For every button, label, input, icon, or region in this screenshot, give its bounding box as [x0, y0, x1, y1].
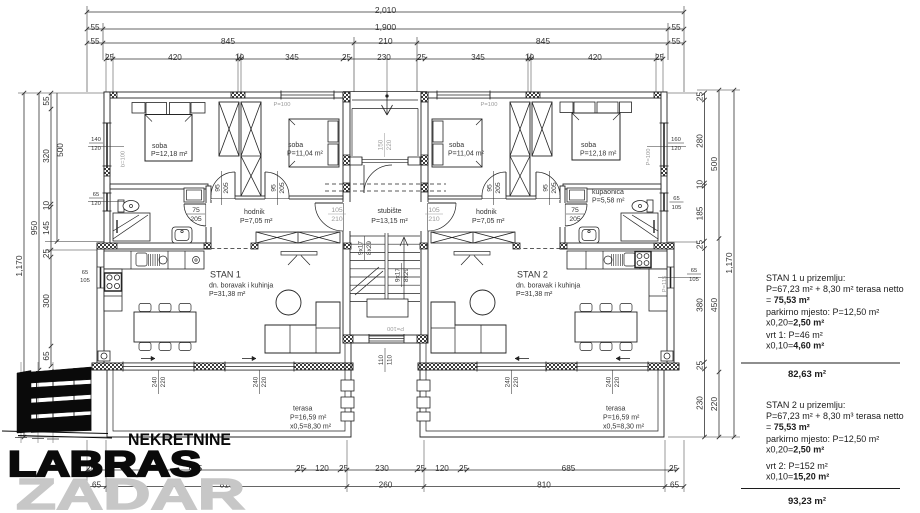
svg-text:105: 105: [672, 205, 682, 211]
svg-text:STAN 2 u prizemlju:: STAN 2 u prizemlju:: [766, 400, 845, 410]
svg-text:hodnik: hodnik: [476, 209, 497, 216]
roof line over entrance recess: [343, 91, 427, 93]
svg-text:810: 810: [537, 481, 551, 490]
svg-text:110: 110: [387, 354, 394, 365]
svg-text:65: 65: [82, 270, 88, 276]
top wall window P=100: [281, 92, 334, 98]
svg-text:450: 450: [709, 298, 719, 312]
logo survey crosses: [15, 437, 27, 439]
svg-text:P=100: P=100: [274, 102, 291, 108]
sofa: [265, 302, 340, 353]
window size 240/220 labels: [158, 370, 160, 394]
svg-text:soba: soba: [152, 143, 167, 150]
living room left wall: [667, 243, 674, 370]
svg-text:x0,10=15,20 m²: x0,10=15,20 m²: [766, 472, 829, 482]
kitchen counter: [567, 251, 667, 269]
svg-text:120: 120: [435, 464, 449, 473]
svg-text:1,900: 1,900: [375, 22, 397, 32]
svg-text:P=67,23 m² + 8,30 m² terasa ne: P=67,23 m² + 8,30 m² terasa netto: [766, 284, 904, 294]
bottom dimension row 25-685-25-120-25-230-25-120-25-685-25: [87, 469, 677, 471]
svg-text:vrt 1: P=46 m²: vrt 1: P=46 m²: [766, 330, 823, 340]
svg-text:P=31,38 m²: P=31,38 m²: [516, 291, 553, 298]
round table: [276, 290, 301, 315]
door arc bedroom 1 (95/205): [535, 172, 537, 196]
svg-text:55: 55: [90, 37, 100, 46]
sliding window arrows: [141, 358, 155, 360]
svg-text:120: 120: [91, 146, 101, 152]
stair break line: [351, 267, 379, 291]
svg-text:P=16,59 m²: P=16,59 m²: [290, 415, 327, 422]
svg-text:240: 240: [605, 376, 612, 387]
svg-text:105: 105: [80, 278, 90, 284]
hob symbol: [193, 257, 200, 264]
svg-text:230: 230: [377, 53, 391, 62]
svg-text:140: 140: [91, 137, 101, 143]
svg-text:P=31,38 m²: P=31,38 m²: [209, 291, 246, 298]
svg-text:500: 500: [709, 157, 719, 171]
outer left wall: [661, 92, 667, 249]
top wall hatch blocks: [654, 92, 667, 98]
sofa: [431, 302, 506, 353]
dish rack: [622, 254, 624, 266]
right dimension chain 25-280-10-185-25-380-25-230: [704, 93, 706, 437]
svg-text:685: 685: [562, 464, 576, 473]
svg-text:25: 25: [296, 464, 306, 473]
svg-text:150: 150: [377, 139, 384, 150]
svg-text:55: 55: [671, 23, 681, 32]
bathroom top wall: [563, 184, 661, 189]
svg-text:9x17: 9x17: [394, 268, 401, 282]
dimension row 2010: [87, 11, 684, 13]
left wall bathroom window 65/120: [104, 193, 110, 211]
svg-text:dn. boravak i kuhinja: dn. boravak i kuhinja: [516, 283, 580, 290]
entrance arrow: [386, 59, 388, 92]
beam over hodnik opening: [431, 232, 515, 243]
svg-text:25: 25: [696, 240, 705, 250]
svg-text:105: 105: [331, 207, 343, 214]
bathroom right wall: [560, 186, 565, 249]
svg-text:25: 25: [669, 464, 679, 473]
left wall window 140/120: [104, 123, 110, 166]
stairwell side wall: [421, 165, 428, 343]
dimension row 845-210-845: [87, 42, 684, 44]
svg-text:P=7,05 m²: P=7,05 m²: [240, 218, 273, 225]
stair landing: [367, 299, 408, 317]
svg-text:dn. boravak i kuhinja: dn. boravak i kuhinja: [209, 283, 273, 290]
window 110/110 labels: [384, 348, 386, 372]
stove on counter: [635, 252, 651, 268]
door size 95/205 labels: [221, 171, 223, 205]
logo building band 3: [31, 399, 91, 415]
left dimension chain 55-320-10-145-25-300-65: [50, 93, 52, 366]
svg-text:75: 75: [571, 207, 579, 214]
svg-text:75: 75: [192, 207, 200, 214]
dish rack: [148, 254, 150, 266]
svg-text:soba: soba: [449, 142, 464, 149]
left dimension line 500: [56, 93, 58, 242]
svg-text:P=115: P=115: [662, 276, 668, 293]
porch interior outline: [352, 108, 418, 110]
door arc bathroom (75/205): [184, 203, 206, 205]
bedroom bottom wall: [211, 196, 343, 199]
logo building band 1: [31, 367, 91, 383]
porch side wall: [343, 92, 350, 165]
staircase: [350, 235, 385, 237]
svg-text:120: 120: [315, 464, 329, 473]
svg-text:845: 845: [221, 36, 235, 46]
washing machine: [567, 188, 587, 202]
bottom wall hatch blocks: [648, 363, 679, 370]
summary rule 1: [741, 362, 900, 364]
svg-text:845: 845: [536, 36, 550, 46]
svg-text:terasa: terasa: [293, 406, 313, 413]
svg-text:kupaonica: kupaonica: [592, 189, 624, 196]
svg-text:10: 10: [235, 53, 245, 62]
bottom window 2: [477, 363, 546, 370]
kitchen dashed line: [520, 248, 567, 250]
svg-text:10: 10: [525, 53, 535, 62]
svg-text:320: 320: [42, 149, 51, 163]
outer top wall: [428, 92, 667, 98]
svg-text:145: 145: [42, 221, 51, 235]
door arc bedroom 1 (95/205): [234, 172, 236, 196]
svg-text:220: 220: [513, 376, 520, 387]
svg-text:260: 260: [379, 481, 393, 490]
logo construction lines: [20, 362, 22, 443]
kitchen counter vertical with stove: [104, 269, 122, 311]
entrance door swing: [363, 165, 365, 193]
svg-text:380: 380: [696, 298, 705, 312]
logo building corner line: [90, 367, 92, 431]
svg-text:120: 120: [671, 146, 681, 152]
logo building mullions: [36, 371, 38, 432]
svg-text:65: 65: [42, 351, 51, 361]
svg-text:stubište: stubište: [377, 208, 401, 215]
svg-text:105: 105: [428, 207, 440, 214]
door arc bedroom 2 (95/205): [505, 172, 507, 196]
svg-text:240: 240: [252, 376, 259, 387]
svg-text:500: 500: [56, 143, 65, 157]
wardrobe column 1: [219, 102, 239, 156]
svg-text:25: 25: [342, 53, 352, 62]
svg-text:210: 210: [378, 36, 392, 46]
terrace outline: [420, 343, 664, 437]
svg-text:230: 230: [375, 464, 389, 473]
stair up arrow: [403, 238, 405, 300]
svg-text:P=7,05 m²: P=7,05 m²: [472, 218, 505, 225]
right dimension line 1170: [733, 90, 735, 437]
svg-text:240: 240: [151, 376, 158, 387]
svg-text:P=100: P=100: [481, 102, 498, 108]
living room left wall window 65/105: [97, 267, 104, 288]
svg-text:65: 65: [673, 196, 679, 202]
svg-text:25: 25: [459, 464, 469, 473]
svg-text:65: 65: [670, 481, 680, 490]
logo swoosh: [2, 431, 108, 434]
svg-text:105: 105: [689, 277, 699, 283]
stair landing dashed lines: [325, 183, 446, 185]
svg-text:hodnik: hodnik: [244, 209, 265, 216]
svg-text:= 75,53 m²: = 75,53 m²: [766, 295, 810, 305]
bed soba 12,18 STAN2: [560, 102, 573, 113]
bathroom wall hatch blocks: [654, 243, 674, 249]
svg-text:STAN 2: STAN 2: [517, 270, 548, 280]
bed room 2: [289, 119, 339, 167]
svg-text:220: 220: [386, 139, 393, 150]
svg-text:205: 205: [190, 216, 202, 223]
dimension row 25-420-10-345-25-230-25-345-10-420-25: [106, 58, 663, 60]
svg-text:2,010: 2,010: [375, 5, 397, 15]
svg-text:8x29: 8x29: [403, 268, 410, 282]
svg-text:55: 55: [671, 37, 681, 46]
door arc stairwell (105/210): [315, 202, 343, 204]
svg-text:950: 950: [29, 221, 39, 235]
svg-text:parkirno mjesto: P=12,50 m²: parkirno mjesto: P=12,50 m²: [766, 434, 879, 444]
door arc bathroom (75/205): [565, 203, 587, 205]
bathroom bottom wall: [560, 243, 674, 249]
terrace pillars: [417, 380, 430, 391]
svg-text:25: 25: [417, 53, 427, 62]
svg-text:ZADAR: ZADAR: [16, 470, 245, 513]
stair 9x17 labels: [364, 236, 366, 260]
stairwell bottom wall with window: [343, 335, 427, 343]
dimension row 1900: [87, 28, 684, 30]
bottom dimension row 65-810-260-810-65: [87, 486, 684, 488]
bottom window 1: [577, 363, 648, 370]
round table: [470, 290, 495, 315]
kitchen dashed line: [204, 248, 251, 250]
shower: [621, 213, 658, 241]
outer top wall: [104, 92, 343, 98]
washbasin: [172, 227, 192, 243]
bottom window 1: [123, 363, 194, 370]
svg-text:= 75,53 m²: = 75,53 m²: [766, 422, 810, 432]
wardrobe column 2: [510, 102, 530, 196]
right dimension line 500-450-220: [718, 90, 720, 437]
svg-text:65: 65: [93, 192, 99, 198]
svg-text:120: 120: [91, 201, 101, 207]
sliding door mark under beam: [281, 252, 317, 256]
door size 150/220 label entrance: [384, 133, 386, 157]
corner column with circle: [98, 351, 110, 361]
left wall hatch block: [661, 166, 667, 176]
svg-text:terasa: terasa: [606, 406, 626, 413]
bottom wall with windows: [92, 363, 353, 370]
svg-text:345: 345: [285, 53, 299, 62]
top wall window P=100: [437, 92, 490, 98]
left dimension line 1170: [23, 93, 25, 437]
washbasin: [579, 227, 599, 243]
left dimension line 950: [38, 93, 40, 370]
door arc bedroom 2 (95/205): [264, 172, 266, 196]
svg-text:95: 95: [270, 184, 277, 192]
svg-text:P=100: P=100: [646, 149, 652, 166]
svg-text:420: 420: [588, 53, 602, 62]
svg-text:P=16,59 m²: P=16,59 m²: [603, 415, 640, 422]
bathroom wall hatch blocks: [97, 243, 117, 249]
svg-text:160: 160: [671, 137, 681, 143]
svg-text:x0,5=8,30 m²: x0,5=8,30 m²: [603, 424, 645, 431]
terrace pillars: [341, 380, 354, 391]
svg-text:55: 55: [90, 23, 100, 32]
svg-text:220: 220: [709, 397, 719, 411]
bathroom right wall: [206, 186, 211, 249]
kitchen counter: [104, 251, 204, 269]
bottom window 2: [225, 363, 294, 370]
living room left wall: [97, 243, 104, 370]
svg-text:220: 220: [261, 376, 268, 387]
shower: [113, 213, 150, 241]
svg-text:soba: soba: [288, 142, 303, 149]
logo building base band: [31, 415, 91, 433]
svg-text:1,170: 1,170: [724, 252, 734, 274]
svg-text:P=11,04 m²: P=11,04 m²: [448, 151, 485, 158]
svg-text:STAN 1: STAN 1: [210, 270, 241, 280]
bathroom top wall: [110, 184, 208, 189]
corner column with circle: [661, 351, 673, 361]
svg-text:x0,10=4,60 m²: x0,10=4,60 m²: [766, 341, 824, 351]
svg-text:10: 10: [696, 180, 705, 190]
door arc stairwell (105/210): [428, 202, 456, 204]
svg-text:210: 210: [331, 216, 343, 223]
svg-text:82,63 m²: 82,63 m²: [788, 369, 826, 380]
svg-text:110: 110: [378, 354, 385, 365]
svg-text:205: 205: [279, 182, 286, 194]
svg-text:P=67,23 m² + 8,30 m³ terasa ne: P=67,23 m² + 8,30 m³ terasa netto: [766, 411, 904, 421]
outer left wall: [104, 92, 110, 249]
summary rule 2: [741, 488, 900, 490]
living room left wall window 65/105: [667, 267, 674, 288]
svg-text:P=13,15 m²: P=13,15 m²: [371, 218, 408, 225]
svg-text:1,170: 1,170: [14, 255, 24, 277]
svg-text:P=100: P=100: [387, 325, 404, 331]
logo building left wall: [17, 371, 31, 434]
svg-text:220: 220: [614, 376, 621, 387]
beam over hodnik opening: [256, 232, 340, 243]
svg-text:vrt 2: P=152 m²: vrt 2: P=152 m²: [766, 461, 828, 471]
dining table with chairs: [575, 312, 637, 342]
porch hatch blocks: [343, 92, 350, 102]
bottom wall with windows: [418, 363, 679, 370]
svg-text:P=12,18 m²: P=12,18 m²: [151, 151, 188, 158]
kitchen counter vertical: [649, 269, 667, 311]
svg-text:240: 240: [504, 376, 511, 387]
left wall hatch block: [104, 166, 110, 176]
svg-text:8x29: 8x29: [366, 241, 373, 255]
bed soba 12,18 STAN1: [132, 103, 145, 114]
wardrobe column 2: [241, 102, 261, 196]
wardrobe column 1: [532, 102, 552, 156]
svg-text:280: 280: [696, 134, 705, 148]
toilet: [647, 200, 653, 212]
svg-text:65: 65: [691, 268, 697, 274]
svg-text:205: 205: [569, 216, 581, 223]
dining table with chairs: [134, 312, 196, 342]
svg-text:93,23 m²: 93,23 m²: [788, 496, 826, 507]
terrace outline: [107, 343, 351, 437]
svg-text:P=5,58 m²: P=5,58 m²: [592, 198, 625, 205]
kitchen sink: [136, 253, 147, 266]
svg-text:25: 25: [696, 361, 705, 371]
svg-text:230: 230: [696, 396, 705, 410]
left wall bathroom window 65/120: [661, 193, 667, 211]
entrance wall and door 150/220: [350, 157, 362, 165]
stairwell side wall: [343, 165, 350, 343]
svg-text:205: 205: [551, 182, 558, 194]
svg-text:x0,5=8,30 m²: x0,5=8,30 m²: [290, 424, 332, 431]
svg-text:9x17: 9x17: [357, 241, 364, 255]
porch side wall: [421, 92, 428, 165]
svg-text:185: 185: [696, 206, 705, 220]
washing machine: [184, 188, 204, 202]
bottom wall hatch blocks: [92, 363, 123, 370]
top wall hatch blocks: [104, 92, 117, 98]
svg-text:x0,20=2,50 m²: x0,20=2,50 m²: [766, 445, 824, 455]
svg-text:parkirno mjesto: P=12,50 m²: parkirno mjesto: P=12,50 m²: [766, 307, 879, 317]
svg-text:b=100: b=100: [121, 151, 127, 167]
svg-text:205: 205: [223, 182, 230, 194]
svg-text:95: 95: [214, 184, 221, 192]
toilet: [118, 200, 124, 212]
svg-text:10: 10: [42, 201, 51, 211]
svg-text:P=12,18 m²: P=12,18 m²: [580, 151, 617, 158]
bathroom bottom wall: [97, 243, 211, 249]
svg-text:soba: soba: [581, 142, 596, 149]
svg-text:420: 420: [168, 53, 182, 62]
svg-text:205: 205: [495, 182, 502, 194]
sliding door mark under beam: [454, 252, 490, 256]
porch hatch blocks: [421, 92, 428, 102]
svg-text:95: 95: [542, 184, 549, 192]
svg-text:P=11,04 m²: P=11,04 m²: [287, 151, 324, 158]
svg-text:210: 210: [428, 216, 440, 223]
svg-text:95: 95: [486, 184, 493, 192]
svg-text:55: 55: [42, 96, 51, 106]
logo building band 2: [31, 384, 91, 399]
left wall window 140/120: [661, 123, 667, 166]
svg-text:220: 220: [160, 376, 167, 387]
sliding window arrows: [616, 358, 630, 360]
kitchen sink: [624, 253, 635, 266]
svg-text:x0,20=2,50 m²: x0,20=2,50 m²: [766, 318, 824, 328]
svg-text:300: 300: [42, 294, 51, 308]
bedroom bottom wall: [428, 196, 560, 199]
svg-text:345: 345: [471, 53, 485, 62]
bed room 2: [432, 119, 482, 167]
svg-text:STAN 1 u prizemlju:: STAN 1 u prizemlju:: [766, 273, 845, 283]
